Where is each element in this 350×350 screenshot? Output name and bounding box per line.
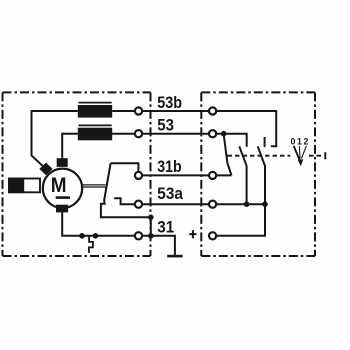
- terminal 53b left: [135, 107, 142, 114]
- junction 31 row / riser: [148, 233, 154, 239]
- junction 31 row right of bonding link: [93, 233, 99, 239]
- terminal 53 left: [135, 130, 142, 137]
- terminal 31b right: [209, 172, 216, 179]
- switch arm S1 with pole to 53a rail: [239, 146, 246, 204]
- motor M: [43, 169, 82, 208]
- junction S2 pole / + feed / 53a rail: [262, 201, 268, 207]
- permanent magnet: [9, 179, 40, 193]
- wire + feed into switch: [213, 204, 265, 236]
- fixed contact stub (position 2): [264, 137, 266, 147]
- ground: [167, 255, 182, 258]
- wire from brush B1 up and to choke L1: [32, 111, 78, 169]
- svg-text:0: 0: [290, 137, 295, 147]
- svg-text:53: 53: [157, 116, 174, 135]
- svg-text:53b: 53b: [157, 93, 182, 112]
- junction 31 row left of bonding link: [79, 233, 85, 239]
- svg-text:2: 2: [303, 137, 308, 147]
- wiper motor assembly enclosure (left dash-dot box): [3, 92, 151, 256]
- plus sign: [189, 230, 196, 238]
- motor shaft (double line): [82, 184, 106, 186]
- terminal + right: [209, 232, 216, 239]
- wire 53 row: brush B2 up, to fixed contact of arm S1: [62, 134, 247, 159]
- terminal 53b right: [209, 107, 216, 114]
- wire 31 row: brush B3 down, to ground drop: [62, 212, 175, 256]
- manual actuator end tick: [324, 152, 326, 159]
- wire 31b row: park pivot to switch arm S0 landing: [111, 163, 232, 175]
- wire 53b row: choke L1 to switch fixed contact: [112, 111, 276, 146]
- junction on 53 row: [221, 131, 227, 137]
- svg-text:31b: 31b: [157, 157, 181, 176]
- mechanical coupling dash line: [228, 155, 291, 157]
- svg-text:M: M: [51, 173, 67, 197]
- wiper switch enclosure (right dash-dot box): [201, 92, 315, 256]
- brush B2 (top): [57, 158, 68, 167]
- selector position rays 1 and 2: [299, 146, 306, 159]
- selector needle at position 0: [294, 146, 304, 166]
- switch arm S2 with pole to 53a rail: [258, 146, 265, 204]
- terminal 31b left: [135, 172, 142, 179]
- switch arm S0 (park feed 53-31b): [224, 134, 232, 175]
- junction S1 pole / 53a rail: [244, 201, 250, 207]
- terminal 31 left: [135, 232, 142, 239]
- wire park contact down to 31 node: [101, 204, 151, 236]
- terminal 53a left: [135, 201, 142, 208]
- flexible bonding link under motor: [89, 237, 93, 253]
- park switch arm: [104, 163, 110, 203]
- svg-text:1: 1: [297, 137, 302, 147]
- wire 53a row: park step contact across to junction: [114, 198, 265, 204]
- brush B3 (bottom): [56, 205, 68, 213]
- terminal 53 right: [209, 130, 216, 137]
- brush B1 (diagonal): [39, 163, 52, 176]
- svg-text:31: 31: [157, 217, 174, 236]
- terminal 53a right: [209, 201, 216, 208]
- svg-text:53a: 53a: [157, 184, 183, 203]
- junction park contact / 31 riser: [148, 215, 154, 221]
- choke L2: [79, 124, 112, 126]
- choke L1: [79, 102, 112, 104]
